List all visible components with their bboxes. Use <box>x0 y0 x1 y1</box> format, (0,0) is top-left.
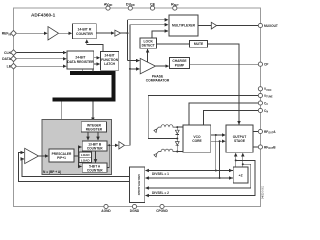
pin RSET <box>173 6 177 10</box>
13-bit B counter box <box>82 141 107 151</box>
chip outline border <box>13 8 260 206</box>
pin CN <box>258 108 262 112</box>
wire tap lower down to divsel line 2 <box>219 141 221 178</box>
wire function latch to R counter <box>87 40 103 52</box>
pin DVDD <box>128 6 132 10</box>
buffer (REFIN input) <box>48 27 59 40</box>
wire B counter to N buffer <box>107 144 118 146</box>
wire lock detect to mute <box>157 43 190 45</box>
wire multiplexer to output buffer <box>198 25 211 27</box>
charge pump box <box>170 58 190 69</box>
svg-text:REFIN: REFIN <box>2 32 11 37</box>
node tank bottom <box>176 151 178 153</box>
pin DATA diamond <box>11 56 17 62</box>
pin RFOUTB <box>258 145 262 149</box>
svg-text:P/P+1: P/P+1 <box>57 156 66 160</box>
5-bit A counter box <box>82 163 107 172</box>
svg-text:RSET: RSET <box>171 2 179 7</box>
svg-text:DATA REGISTER: DATA REGISTER <box>67 60 94 64</box>
pin LE diamond <box>11 63 17 69</box>
node tank mid <box>176 138 178 140</box>
wire vertical A (R signal) <box>127 20 129 61</box>
node on divsel line 1 <box>215 170 217 172</box>
node tap lower <box>219 140 221 142</box>
node tank top <box>176 126 178 128</box>
wire buffer to R counter <box>59 32 72 34</box>
output stage box <box>226 125 253 152</box>
wire mux output upper (to input buffer) <box>22 159 130 177</box>
wire phase comparator to charge pump <box>156 65 169 67</box>
svg-text:CP: CP <box>264 63 269 67</box>
lock detect box <box>140 38 157 48</box>
wire divsel line 1 (mux to divide-by-2) <box>146 170 234 172</box>
inductor top coil <box>159 125 178 127</box>
svg-text:LOAD: LOAD <box>81 159 91 163</box>
svg-text:RFOUTB: RFOUTB <box>264 145 276 150</box>
svg-text:AVDD: AVDD <box>104 2 113 7</box>
svg-text:COMPARATOR: COMPARATOR <box>146 79 170 83</box>
wire vertical B (N signal) <box>129 25 131 146</box>
wire bus to integer register <box>92 102 94 121</box>
24-bit data register box <box>67 51 94 69</box>
svg-text:VTUNE: VTUNE <box>264 94 273 99</box>
wires integer register to B counter <box>87 132 89 140</box>
pin RFOUTA <box>258 129 262 133</box>
inductor bottom coil <box>159 149 178 151</box>
wire B counter to A counter <box>95 152 97 163</box>
svg-text:MULTIPLEXER: MULTIPLEXER <box>137 174 141 196</box>
wire DATA to data register <box>16 58 66 60</box>
svg-text:ADF4360-1: ADF4360-1 <box>31 13 56 18</box>
wire buffer to MUXOUT pin <box>217 25 259 27</box>
wire LE to data register <box>16 65 66 67</box>
wire prescaler to A counter <box>79 156 82 167</box>
pin DGND <box>132 204 136 208</box>
resistor: 14-BIT R COUNTER box <box>73 24 97 39</box>
24-bit function latch box <box>101 52 119 71</box>
wire prescaler to B counter <box>74 147 82 156</box>
pin MUXOUT <box>258 23 262 27</box>
svg-text:AGND: AGND <box>101 209 111 213</box>
multiplexer U2 box <box>169 15 198 36</box>
svg-text:DIVSEL = 1: DIVSEL = 1 <box>152 172 169 176</box>
varactor D1 <box>175 130 179 134</box>
wire divide-by-2 up to output stage (left) <box>235 153 237 167</box>
svg-text:COUNTER: COUNTER <box>87 146 103 150</box>
wire to phase comparator input 2 <box>130 68 139 70</box>
wire buffer to prescaler <box>39 155 49 157</box>
svg-text:MULTIPLEXER: MULTIPLEXER <box>172 24 196 28</box>
wire VCO to output stage (lower) <box>211 140 225 142</box>
pin CE <box>150 6 154 10</box>
VCO core box <box>183 125 211 152</box>
node div2 out right <box>242 163 244 165</box>
pin stub bottom coil <box>154 152 159 157</box>
buffer MUXOUT <box>211 22 216 29</box>
svg-text:STAGE: STAGE <box>234 139 246 143</box>
node on divsel line 2 <box>219 177 221 179</box>
svg-text:04632-0-001: 04632-0-001 <box>263 185 265 199</box>
buffer N divider output <box>119 142 125 149</box>
pin CPGND <box>160 204 164 208</box>
node tap upper <box>215 134 217 136</box>
pin stub top coil <box>154 127 159 132</box>
svg-text:CLK: CLK <box>4 51 12 55</box>
svg-text:LE: LE <box>7 65 12 69</box>
wire phase comparator to lock detect <box>147 49 149 62</box>
wire buffer out to node A <box>121 32 128 34</box>
pin REFIN diamond <box>11 30 17 36</box>
svg-text:MUXOUT: MUXOUT <box>264 24 278 28</box>
wire lock detect to multiplexer input 3 <box>152 31 168 38</box>
mux vertical box <box>130 167 145 203</box>
svg-text:14-BIT R: 14-BIT R <box>78 28 92 32</box>
svg-text:LATCH: LATCH <box>104 62 116 66</box>
node B junction to phase comparator <box>129 68 131 70</box>
wire divsel line 2 (mux to divide-by-2) <box>146 177 234 179</box>
wire div2 outer loop to mux line 4 <box>146 160 256 195</box>
svg-text:CE: CE <box>150 2 156 6</box>
pin CP <box>258 62 262 66</box>
prescaler box <box>49 149 74 162</box>
wire CN to VCO core <box>204 111 259 126</box>
svg-text:MUTE: MUTE <box>194 42 204 46</box>
pin AVDD <box>106 6 110 10</box>
svg-text:CN: CN <box>264 109 268 114</box>
mute box <box>190 41 208 48</box>
wire CLK to data register <box>16 52 66 54</box>
wire to multiplexer input 2 <box>130 24 168 26</box>
wire mux output lower (to input buffer) <box>19 153 130 182</box>
svg-text:COUNTER: COUNTER <box>87 168 103 172</box>
svg-text:PUMP: PUMP <box>175 63 185 67</box>
varactor chain vertical <box>176 127 178 151</box>
wire R counter out to small buffer <box>96 32 114 34</box>
buffer prescaler input <box>25 148 39 163</box>
thick data bus <box>53 73 114 100</box>
bus drops from data register <box>81 69 83 72</box>
wire REFIN to input buffer <box>16 32 47 34</box>
small buffer after R counter <box>115 30 121 36</box>
wire N buffer to vertical B <box>125 144 131 146</box>
gray N divider box <box>42 120 112 175</box>
svg-text:DATA: DATA <box>2 57 11 61</box>
svg-text:COUNTER: COUNTER <box>76 32 93 36</box>
wire VTUNE to varactors <box>148 96 258 139</box>
wire CC to VCO core <box>189 103 258 125</box>
pin VTUNE <box>258 93 262 97</box>
wire output stage to RFoutA <box>253 131 258 133</box>
varactor D2 <box>175 142 179 146</box>
wire tank to VCO bottom <box>177 151 183 153</box>
wire data register to function latch (2 arrows) <box>94 57 100 59</box>
wire output stage to RFoutB <box>253 146 258 148</box>
wire VCO to output stage (upper) <box>211 134 225 136</box>
wire tank to VCO top <box>177 126 183 128</box>
wire tap upper down to divsel line 1 <box>215 135 217 171</box>
wire div2 inner loop to mux line 3 <box>146 164 251 188</box>
wire mute to output stage <box>208 44 240 124</box>
svg-text:CORE: CORE <box>192 139 202 143</box>
node div2 out left <box>235 159 237 161</box>
svg-text:÷2: ÷2 <box>239 173 243 177</box>
svg-text:DVDD: DVDD <box>126 2 135 7</box>
svg-text:VVCO: VVCO <box>264 87 271 92</box>
divide-by-2 box <box>233 167 248 183</box>
svg-text:RFOUTA: RFOUTA <box>264 130 276 135</box>
pin AGND <box>104 204 108 208</box>
node A junction <box>127 32 129 34</box>
svg-text:LOAD: LOAD <box>81 153 91 157</box>
svg-text:N = (BP + A): N = (BP + A) <box>43 170 61 174</box>
wire charge pump to CP pin <box>190 63 259 65</box>
load box 1 <box>79 152 92 157</box>
pin CC <box>258 101 262 105</box>
op-amp phase comparator triangle <box>140 58 155 74</box>
svg-text:DGND: DGND <box>130 209 140 213</box>
wire to phase comparator input 1 <box>128 60 140 62</box>
node junction A counter feed <box>108 144 110 146</box>
wire to multiplexer input 1 <box>128 19 169 21</box>
wire A counter riser <box>107 145 109 167</box>
svg-text:CC: CC <box>264 101 268 106</box>
pin CLK diamond <box>11 50 17 56</box>
load box 2 <box>79 157 92 162</box>
wire bus to prescaler <box>60 102 62 149</box>
svg-text:DIVSEL = 2: DIVSEL = 2 <box>152 191 169 195</box>
svg-text:CPGND: CPGND <box>156 209 168 213</box>
integer register box <box>81 122 106 132</box>
wire divide-by-2 up to output stage (right) <box>242 153 244 167</box>
svg-text:DETECT: DETECT <box>142 44 155 48</box>
svg-text:REGISTER: REGISTER <box>86 127 103 131</box>
pin VVCO <box>258 87 262 91</box>
